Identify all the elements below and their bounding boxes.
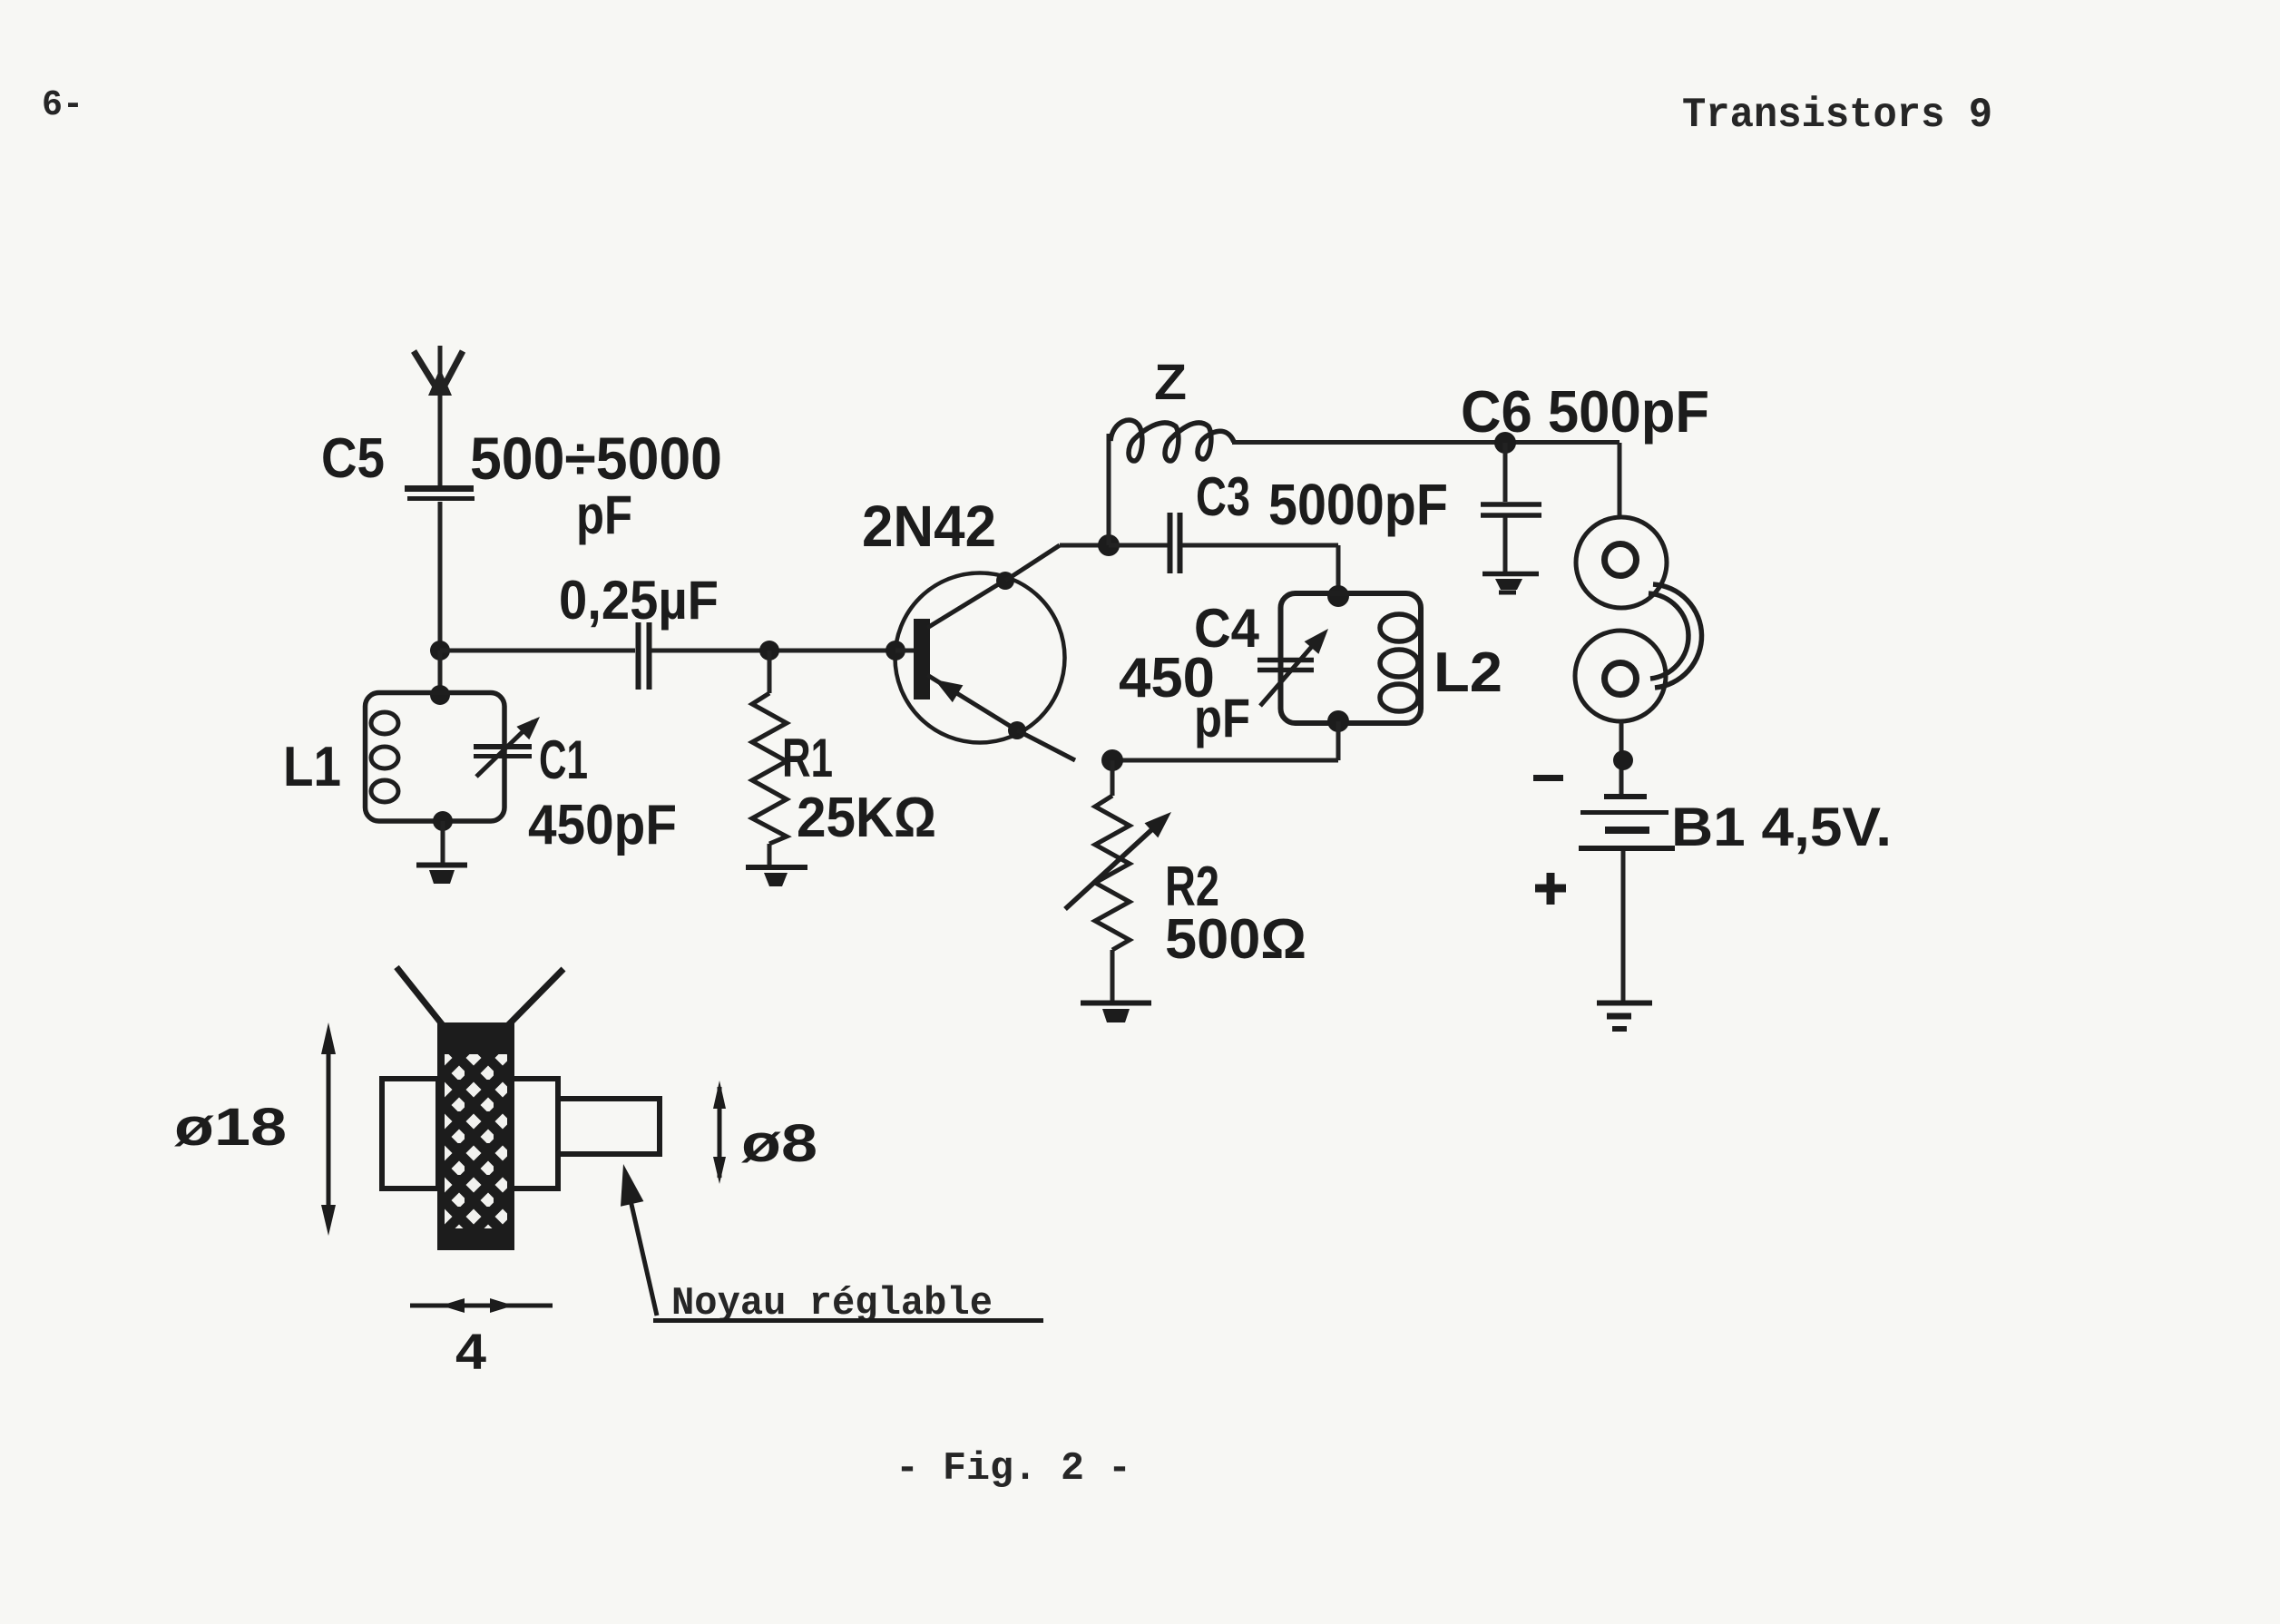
wire emitter junction to R2 [1111, 760, 1115, 796]
ground under R2 [1081, 1003, 1151, 1023]
wire junction to R1 [768, 651, 772, 693]
svg-text:R1: R1 [782, 728, 833, 788]
antenna [414, 346, 463, 486]
battery minus sign [1533, 775, 1563, 781]
battery B1 [1579, 797, 1675, 848]
wire C6 to ground [1503, 517, 1508, 572]
headphones [1575, 517, 1702, 721]
wire node C to C3 [1109, 543, 1168, 548]
svg-text:ø8: ø8 [741, 1114, 817, 1173]
underline [653, 1318, 1043, 1323]
capacitor C5 [405, 489, 475, 499]
svg-text:ø18: ø18 [174, 1098, 287, 1157]
node tank2 bottom junction [1327, 710, 1349, 732]
node tank top junction [430, 685, 450, 705]
inductor L1 [371, 712, 398, 802]
node emitter junction [1101, 749, 1123, 771]
capacitor C4 variable [1257, 629, 1328, 706]
coil former drawing: lead wires [396, 967, 563, 1025]
dimension arrow ø18 [321, 1022, 336, 1236]
svg-text:5000pF: 5000pF [1268, 472, 1448, 537]
wire node A to coupling cap [440, 649, 635, 653]
node C6 junction [1494, 432, 1516, 454]
dimension arrow ø8 [713, 1081, 726, 1184]
svg-text:500÷5000: 500÷5000 [470, 425, 722, 492]
wire collector to node C [1060, 543, 1109, 548]
emitter lead with arrow [927, 675, 1017, 730]
ground under L1 tank [416, 866, 467, 885]
svg-text:pF: pF [576, 484, 632, 545]
svg-text:2N42: 2N42 [862, 494, 996, 559]
wire to headphones [1618, 443, 1622, 519]
node tank bottom junction [433, 811, 453, 831]
dimension line 4 [410, 1298, 553, 1313]
svg-text:450pF: 450pF [528, 794, 677, 856]
svg-text:500Ω: 500Ω [1165, 908, 1306, 971]
svg-text:4: 4 [455, 1323, 486, 1380]
svg-text:- Fig. 2 -: - Fig. 2 - [895, 1446, 1131, 1492]
svg-text:pF: pF [1194, 688, 1250, 748]
wire headphones to battery [1619, 721, 1624, 794]
svg-text:L1: L1 [283, 736, 341, 798]
capacitor C1 variable [474, 717, 540, 777]
inductor L2 [1380, 614, 1418, 711]
wire coupling cap to node B [651, 649, 894, 653]
wire choke Z to node D [1232, 440, 1619, 445]
svg-text:C6 500pF: C6 500pF [1461, 378, 1709, 445]
noyau reglable pointer arrow [621, 1164, 657, 1316]
wire battery to ground [1621, 851, 1626, 1001]
coil former hatched body [437, 1022, 514, 1250]
wire node A down to tank [438, 651, 443, 695]
resistor R1 [752, 693, 787, 844]
svg-text:Transistors 9: Transistors 9 [1682, 92, 1992, 139]
adjustable core arm [558, 1099, 660, 1154]
node battery junction [1613, 750, 1633, 770]
capacitor C6 [1481, 504, 1541, 515]
svg-text:Z: Z [1154, 353, 1187, 410]
capacitor 0,25µF [639, 622, 650, 690]
wire junction down to C6 [1503, 443, 1508, 502]
ground under C6 [1482, 574, 1539, 593]
wire tank2 bottom to emitter wire [1112, 721, 1338, 760]
collector lead [927, 581, 1004, 628]
wire node C up to choke Z [1107, 434, 1111, 545]
C4 L2 tank box [1281, 593, 1422, 723]
svg-text:B1 4,5V.: B1 4,5V. [1671, 797, 1892, 857]
wire R1 to ground [768, 844, 772, 865]
wire R2 to ground [1111, 950, 1115, 1001]
ground under R1 [746, 867, 807, 886]
wire antenna to node A [438, 502, 443, 651]
battery plus sign [1535, 873, 1566, 905]
node C collector junction [1098, 534, 1120, 556]
base contact node [886, 641, 905, 660]
svg-text:C5: C5 [321, 427, 385, 490]
svg-text:25KΩ: 25KΩ [797, 787, 936, 849]
L1 C1 tank box [366, 693, 505, 822]
coil former right flange [511, 1079, 558, 1189]
svg-text:L2: L2 [1434, 641, 1502, 704]
node R1 top junction [759, 641, 779, 660]
svg-text:6-: 6- [42, 85, 83, 126]
svg-text:0,25µF: 0,25µF [559, 570, 719, 631]
transistor Q1 2N42 [886, 545, 1075, 760]
svg-text:C1: C1 [539, 729, 588, 790]
wire tank to ground [441, 821, 445, 863]
ground under battery [1597, 1003, 1652, 1030]
base bar [914, 619, 930, 699]
resistor R2 variable [1065, 796, 1171, 950]
wire C3 to tank2 [1182, 545, 1338, 594]
coil former left flange [382, 1079, 438, 1189]
node A junction [430, 641, 450, 660]
inductor Z choke [1111, 420, 1234, 461]
capacitor C3 [1170, 513, 1180, 573]
svg-text:C3: C3 [1196, 466, 1250, 527]
node tank2 top junction [1327, 585, 1349, 607]
